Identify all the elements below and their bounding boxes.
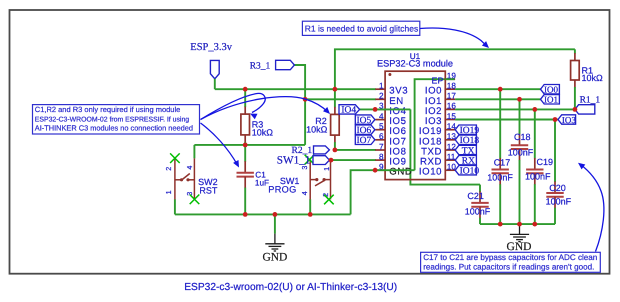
- svg-text:C20: C20: [549, 183, 566, 193]
- svg-text:4: 4: [379, 112, 384, 121]
- U1 pin 3 IO4: [375, 108, 385, 110]
- svg-text:R1_1: R1_1: [580, 95, 601, 105]
- svg-text:SW1_1: SW1_1: [277, 155, 311, 167]
- wire pin 17 IO1: [455, 98, 540, 100]
- junction at 334.9,89.2: [333, 87, 338, 92]
- svg-text:18: 18: [447, 82, 457, 91]
- junction at 555,119.5: [553, 117, 558, 122]
- note box R1: [302, 21, 419, 35]
- wire GND pin 9 routing: [351, 170, 376, 214]
- svg-text:GND: GND: [507, 241, 532, 253]
- U1 pin 8 IO9: [375, 159, 385, 161]
- junction at 310.2,214.4: [308, 212, 313, 217]
- wire bottom left GND rail: [175, 213, 351, 215]
- no-connect X SW2 pin 3: [190, 195, 200, 205]
- arrow note3 to capacitors: [581, 165, 604, 252]
- node IO4 tag: [339, 105, 360, 114]
- wire SW2 pin1 down: [174, 199, 176, 214]
- junction at 375.1,170.2: [373, 168, 378, 173]
- svg-text:7: 7: [379, 142, 384, 151]
- svg-text:100nF: 100nF: [546, 197, 572, 207]
- node IO0 tag: [541, 85, 560, 94]
- U1 pin 7 IO8: [375, 149, 385, 151]
- svg-text:IO3: IO3: [562, 115, 576, 125]
- node IO18 tag: [455, 135, 476, 144]
- junction at 245.2,214.4: [243, 212, 248, 217]
- U1 pin 15 IO3: [445, 119, 455, 121]
- note box C17-C21: [421, 252, 601, 272]
- svg-text:C21: C21: [467, 191, 484, 201]
- no-connect X SW1 pin 2: [324, 195, 334, 205]
- capacitor C18: [519, 99, 521, 134]
- junction at 305.1,99.3: [303, 97, 308, 102]
- junction at 245.2,89.2: [243, 87, 248, 92]
- wire R2 bottom to pin 7: [335, 149, 376, 151]
- svg-text:C17 to C21 are bypass capacito: C17 to C21 are bypass capacitors for ADC…: [423, 253, 597, 262]
- U1 pin 17 IO1: [445, 98, 455, 100]
- svg-text:RST: RST: [199, 186, 218, 196]
- svg-text:5: 5: [379, 122, 384, 131]
- svg-text:IO0: IO0: [544, 85, 558, 95]
- junction at 574.9,109.4: [573, 107, 578, 112]
- arrow note2 to R1 wire: [420, 28, 486, 45]
- U1 pin 11 RXD: [445, 159, 455, 161]
- U1 pin 6 IO7: [375, 139, 385, 141]
- svg-text:2: 2: [379, 92, 384, 101]
- U1 pin 14 IO19: [445, 129, 455, 131]
- resistor R2: [334, 89, 336, 107]
- svg-text:C18: C18: [514, 132, 531, 142]
- U1 pin-1 mark: [388, 73, 391, 76]
- svg-text:100nF: 100nF: [525, 172, 551, 182]
- wire EP pin overlay: [445, 78, 454, 80]
- ground symbol left: [274, 214, 276, 233]
- U1 pin 19 EP: [445, 78, 455, 80]
- svg-text:ESP32-C3-WROOM-02 from ESPRESS: ESP32-C3-WROOM-02 from ESPRESSIF. If usi…: [35, 116, 189, 123]
- wire IO4 down to C21: [410, 109, 480, 184]
- U1 pin 13 IO18: [445, 139, 455, 141]
- svg-text:IO10: IO10: [419, 167, 442, 178]
- node IO1 tag: [541, 95, 560, 104]
- svg-text:ESP_3.3v: ESP_3.3v: [190, 42, 232, 53]
- svg-text:ESP32-C3 module: ESP32-C3 module: [377, 59, 453, 69]
- wire 3V3 rail: [215, 88, 376, 90]
- svg-text:ESP32-c3-wroom-02(U) or AI-Thi: ESP32-c3-wroom-02(U) or AI-Thinker-c3-13…: [184, 282, 397, 293]
- arrow note1 to C1: [201, 123, 238, 165]
- svg-text:17: 17: [447, 92, 457, 101]
- junction at 534.8,224.1: [532, 222, 537, 227]
- svg-text:1: 1: [379, 82, 384, 91]
- svg-text:IO4: IO4: [341, 106, 356, 116]
- capacitor C1: [244, 145, 246, 162]
- svg-text:AI-THINKER C3 modules no conne: AI-THINKER C3 modules no connection need…: [35, 124, 193, 133]
- junction at 534.8,109.4: [532, 107, 537, 112]
- svg-text:R1 is needed to avoid glitches: R1 is needed to avoid glitches: [305, 24, 418, 34]
- svg-text:100nF: 100nF: [487, 172, 513, 182]
- U1 pin 10 IO10: [445, 169, 455, 171]
- U1 pin 16 IO2: [445, 108, 455, 110]
- node IO10 tag: [455, 166, 476, 175]
- svg-text:10kΩ: 10kΩ: [252, 127, 274, 137]
- U1 pin 2 EN: [375, 98, 385, 100]
- svg-text:C19: C19: [537, 157, 554, 167]
- wire pin 15 IO3: [455, 119, 558, 121]
- junction at 500.2,89.2: [498, 87, 503, 92]
- resistor R1: [574, 49, 576, 53]
- svg-text:GND: GND: [262, 252, 287, 264]
- capacitor C17: [499, 89, 501, 158]
- wire SW2 pin4 up: [193, 145, 195, 159]
- svg-text:EP: EP: [431, 76, 443, 86]
- node IO6 tag: [355, 125, 375, 134]
- svg-text:readings. Put capacitors if re: readings. Put capacitors if readings are…: [423, 262, 594, 271]
- svg-text:15: 15: [447, 112, 457, 121]
- U1 pin 12 TXD: [445, 149, 455, 151]
- no-connect X SW1 pin 3: [305, 155, 315, 165]
- junction at 519.5,99.3: [517, 97, 522, 102]
- capacitor C19: [534, 109, 536, 158]
- junction at 500.2,224.1: [498, 222, 503, 227]
- node TX tag: [455, 145, 476, 154]
- wire power stem: [214, 79, 216, 89]
- svg-text:1: 1: [164, 190, 173, 194]
- svg-text:8: 8: [379, 152, 384, 161]
- svg-text:C17: C17: [494, 158, 511, 168]
- wire IO4 tag to pin 3: [359, 108, 376, 110]
- junction at 334.9,149.9: [333, 148, 338, 153]
- capacitor C21: [479, 185, 481, 192]
- junction at 245.2,144.9: [243, 143, 248, 148]
- no-connect X SW2 pin 2: [170, 153, 180, 163]
- wire EN net from R3_1: [294, 65, 305, 145]
- switch SW2 RST: [174, 158, 176, 199]
- wire EN to pin 2: [305, 98, 376, 100]
- U1 pin 1 3V3: [375, 88, 385, 90]
- svg-text:100nF: 100nF: [465, 206, 491, 216]
- resistor R3: [244, 89, 246, 107]
- svg-text:2: 2: [164, 167, 173, 171]
- node IO19 tag: [455, 125, 476, 134]
- U1 pin 4 IO5: [375, 119, 385, 121]
- svg-text:IO7: IO7: [357, 136, 372, 146]
- wire SW1 pin4 down: [309, 199, 311, 214]
- svg-text:R3_1: R3_1: [250, 61, 271, 71]
- note box C1 R2 R3: [33, 105, 200, 134]
- wire R1 top rail: [335, 49, 575, 89]
- svg-text:10kΩ: 10kΩ: [306, 125, 328, 135]
- wire pin 16 IO2 to R1: [455, 108, 575, 110]
- junction at 375.1,109.4: [373, 107, 378, 112]
- svg-text:100nF: 100nF: [508, 148, 534, 158]
- node IO5 tag: [355, 115, 375, 124]
- svg-text:PROG: PROG: [268, 184, 296, 194]
- wire SW1 pin1 to IO9: [331, 159, 376, 161]
- wire SW2/R3/C1 horizontal: [194, 144, 305, 146]
- capacitor C20: [554, 120, 556, 183]
- svg-text:IO18: IO18: [460, 136, 480, 146]
- svg-text:1: 1: [322, 167, 331, 171]
- wire pin 18 IO0: [455, 88, 540, 90]
- arrow note1 to R3: [201, 93, 266, 119]
- node IO7 tag: [355, 135, 375, 144]
- junction at 331,160.1: [329, 158, 334, 163]
- svg-text:6: 6: [379, 132, 384, 141]
- node RX tag: [455, 155, 476, 164]
- wire IO4 through body to C21 branch: [375, 108, 410, 110]
- svg-text:4: 4: [185, 166, 194, 170]
- svg-text:IO1: IO1: [544, 95, 558, 105]
- svg-text:IO10: IO10: [460, 167, 480, 177]
- arrow note1 to R2: [201, 97, 329, 120]
- wire GND pin 9 through body to EP: [375, 169, 414, 171]
- svg-text:4: 4: [300, 191, 309, 195]
- U1 pin 9 GND: [375, 169, 385, 171]
- svg-text:10kΩ: 10kΩ: [582, 73, 604, 83]
- switch SW1 PROG: [309, 160, 311, 200]
- wire bottom right GND rail: [480, 223, 555, 225]
- junction at 519.5,224.1: [517, 222, 522, 227]
- svg-text:C1,R2 and R3 only required if: C1,R2 and R3 only required if using modu…: [35, 105, 181, 114]
- node IO3 tag: [558, 115, 576, 124]
- junction at 274.9,214.4: [273, 212, 278, 217]
- ground symbol right: [510, 224, 529, 242]
- svg-text:1uF: 1uF: [255, 179, 269, 188]
- wire EP down through body: [415, 79, 455, 170]
- op IC U1 body: [385, 71, 445, 179]
- svg-text:16: 16: [447, 102, 457, 111]
- svg-text:GND: GND: [389, 167, 412, 178]
- U1 pin 5 IO6: [375, 129, 385, 131]
- U1 pin 18 IO0: [445, 88, 455, 90]
